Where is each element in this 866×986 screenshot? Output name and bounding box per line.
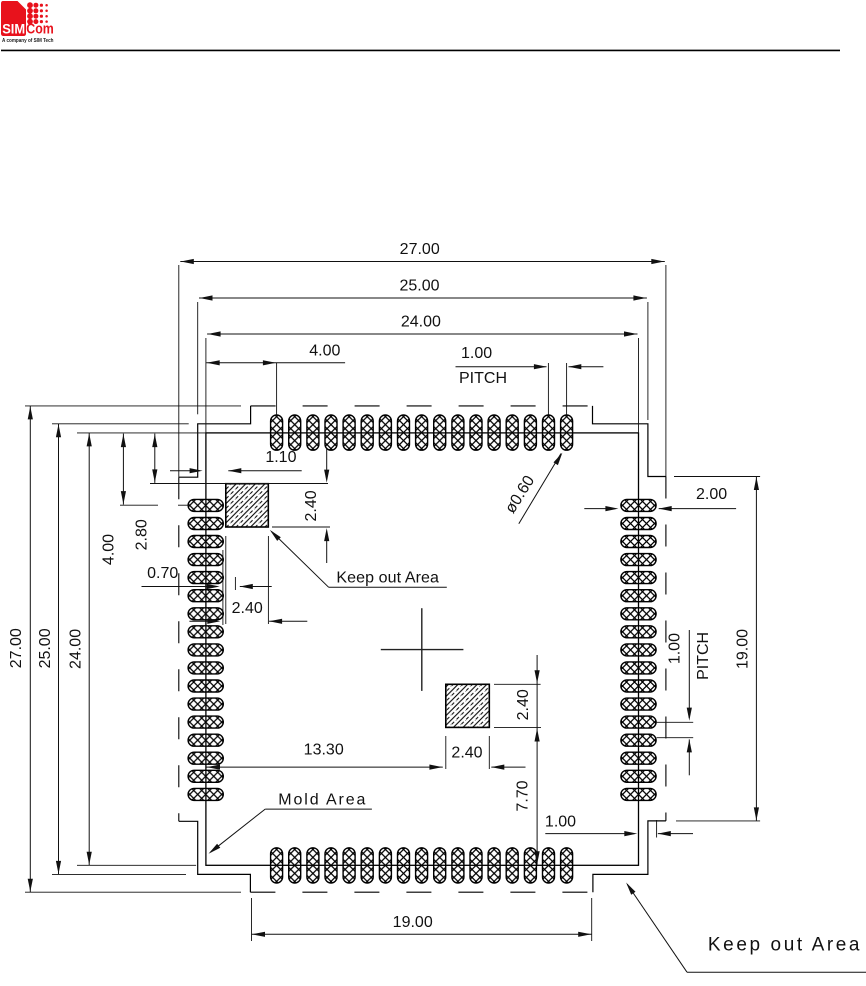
extension line square2 right edge (x489.3)	[488, 736, 490, 769]
dimension 25.00 (top)	[199, 297, 647, 299]
extension line 25.00 top-right (x647.9)	[647, 302, 649, 420]
svg-text:2.00: 2.00	[696, 486, 727, 503]
dimension 4.00 (top)	[206, 362, 345, 364]
extension line 24.00 top-right (x638.5)	[638, 338, 640, 433]
svg-text:PITCH: PITCH	[459, 370, 507, 387]
svg-text:2.40: 2.40	[451, 745, 482, 762]
keep out area left edge (dashed)	[178, 477, 180, 821]
bottom pad row (17 pads)	[271, 848, 573, 883]
extension line 19.00 right-top (y476.5)	[674, 476, 760, 478]
dimension 24.00 (top)	[207, 333, 637, 335]
extension line square1 left edge (x225.8)	[225, 536, 227, 624]
extension tick 0.70 right reference (x235.4)	[234, 577, 236, 590]
extension line 27.00 left-bottom (y892.2)	[25, 891, 241, 893]
dimension 2.40 square1 vertical	[326, 449, 328, 470]
extension line 19.00 bottom-left (x251.5)	[251, 898, 253, 941]
svg-text:24.00: 24.00	[68, 629, 85, 669]
mold area outline corner steps	[179, 406, 666, 892]
svg-text:19.00: 19.00	[735, 629, 752, 669]
svg-text:1.00: 1.00	[461, 345, 492, 362]
extension line right pitch pad A (y722.3)	[657, 721, 694, 723]
keep out square (top-left)	[226, 484, 268, 527]
keep out area top edge (dashed)	[251, 405, 593, 407]
svg-text:Keep out Area: Keep out Area	[336, 570, 439, 587]
dimension 4.00 (left)	[122, 434, 124, 505]
extension line 25.00 left-bottom (y874.4)	[52, 873, 186, 875]
svg-text:27.00: 27.00	[8, 628, 25, 668]
dimension 19.00 (right)	[755, 477, 757, 821]
svg-text:Keep out Area: Keep out Area	[708, 935, 862, 956]
svg-text:24.00: 24.00	[401, 314, 441, 331]
svg-text:13.30: 13.30	[304, 742, 344, 759]
extension line 19.00 right-bottom (y820.9)	[676, 820, 760, 822]
extension line square2 left edge (x445.8)	[445, 736, 447, 769]
extension line right pitch pad B (y737.7)	[657, 737, 694, 739]
right pad column (17 pads)	[621, 499, 656, 800]
svg-text:4.00: 4.00	[309, 342, 340, 359]
svg-text:4.00: 4.00	[101, 534, 118, 565]
label Keep out Area (bottom-right) leader	[687, 971, 866, 973]
extension line 24.00 left-bottom (y865.3)	[77, 864, 196, 866]
label Keep out Area (top-left) leader	[329, 586, 447, 588]
extension line 25.00 left-top (y423.8)	[52, 423, 189, 425]
dimension 1.00 PITCH (right)	[688, 630, 690, 718]
extension line 24.00 top-left (x205.9)	[205, 338, 207, 433]
keep out area right edge (dashed)	[665, 477, 667, 821]
extension line pitch pad 17 (x566.6)	[566, 363, 568, 415]
svg-text:A company of SIM Tech: A company of SIM Tech	[2, 38, 54, 44]
label Mold Area leader	[265, 808, 372, 810]
dimension 27.00 (left)	[29, 406, 31, 892]
leader arrow pad diameter	[519, 454, 561, 524]
svg-text:27.00: 27.00	[400, 241, 440, 258]
svg-text:PITCH: PITCH	[695, 632, 712, 680]
extension line 24.00 left-top (y432.9)	[77, 432, 206, 434]
extension tick pad right edge (x656.6)	[656, 820, 658, 838]
extension line 27.00 top-right (x665.9)	[665, 265, 667, 477]
extension line first top pad centre (x276.6)	[276, 363, 278, 415]
center cross mark	[381, 608, 464, 691]
svg-text:1.00: 1.00	[666, 633, 683, 664]
keep out area bottom edge (dashed)	[250, 891, 593, 893]
dimension 2.40 square2 vertical and 7.70	[536, 655, 538, 865]
extension line square2 top (y684.3)	[494, 683, 541, 685]
extension line first left pad centre (y505.2)	[120, 504, 158, 506]
dimension 24.00 (left)	[88, 433, 90, 865]
svg-text:2.40: 2.40	[303, 490, 320, 521]
module outline (24.00 square, solid)	[206, 433, 639, 865]
dimension 2.80 (left)	[154, 434, 156, 483]
svg-text:25.00: 25.00	[399, 278, 439, 295]
extension line keep out square bottom (y527)	[272, 526, 330, 528]
SIMCom logo dot matrix	[27, 2, 48, 24]
extension line pitch pad 16 (x548.4)	[547, 363, 549, 415]
extension line square1 right edge (x268.4)	[267, 536, 269, 624]
extension line keep out square top (y483.5)	[150, 483, 328, 485]
dimension 27.00 (top)	[180, 261, 665, 263]
svg-text:ø0.60: ø0.60	[502, 473, 538, 517]
dimension 1.00 PITCH (top)	[456, 366, 547, 368]
svg-text:1.10: 1.10	[265, 449, 296, 466]
svg-text:7.70: 7.70	[515, 780, 532, 811]
extension line square2 bottom (y727.4)	[494, 726, 541, 728]
extension line 25.00 top-left (x197.7)	[197, 302, 199, 414]
svg-text:1.00: 1.00	[545, 814, 576, 831]
svg-text:SIM: SIM	[2, 21, 25, 36]
svg-text:0.70: 0.70	[147, 565, 178, 582]
svg-text:2.40: 2.40	[232, 600, 263, 617]
extension line 27.00 left-top (y405.9)	[25, 405, 241, 407]
extension line 27.00 top-left (x178.8)	[178, 265, 180, 477]
dimension 25.00 (left)	[58, 424, 60, 875]
keep out square (center)	[446, 684, 490, 727]
svg-text:Mold Area: Mold Area	[278, 792, 367, 809]
SIMCom logo	[1, 1, 54, 44]
extension line pad right edge (x222.9)	[222, 550, 224, 625]
extension line 19.00 bottom-right (x591.7)	[591, 898, 593, 941]
svg-text:2.80: 2.80	[134, 519, 151, 550]
top pad row (17 pads)	[271, 415, 573, 450]
svg-text:19.00: 19.00	[393, 914, 433, 931]
left pad column (17 pads)	[188, 499, 223, 800]
svg-text:2.40: 2.40	[515, 689, 532, 720]
SIMCom logo card shape	[1, 1, 26, 36]
svg-text:25.00: 25.00	[37, 628, 54, 668]
header rule	[1, 49, 840, 51]
